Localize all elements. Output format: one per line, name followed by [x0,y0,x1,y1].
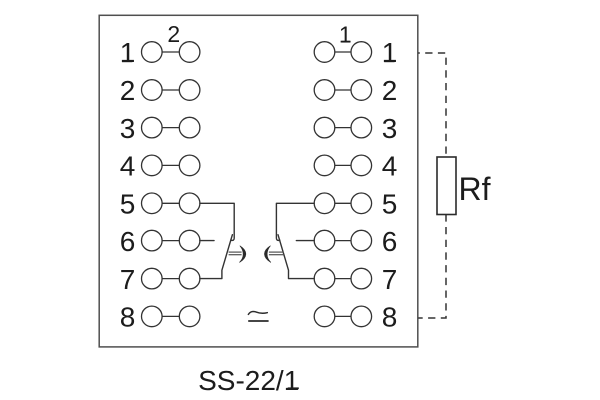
svg-text:1: 1 [120,37,136,68]
svg-text:6: 6 [382,226,398,257]
svg-text:SS-22/1: SS-22/1 [198,365,299,396]
svg-text:6: 6 [120,226,136,257]
svg-text:5: 5 [382,189,398,220]
svg-text:1: 1 [339,22,352,48]
svg-text:3: 3 [382,113,398,144]
svg-text:3: 3 [120,113,136,144]
svg-text:4: 4 [382,151,398,182]
svg-text:2: 2 [382,75,398,106]
svg-text:8: 8 [382,302,398,333]
svg-text:8: 8 [120,302,136,333]
svg-text:Rf: Rf [459,171,491,207]
svg-text:2: 2 [167,21,180,47]
svg-text:7: 7 [120,264,136,295]
svg-text:7: 7 [382,264,398,295]
svg-text:2: 2 [120,75,136,106]
svg-text:4: 4 [120,151,136,182]
svg-text:1: 1 [382,37,398,68]
svg-text:5: 5 [120,189,136,220]
